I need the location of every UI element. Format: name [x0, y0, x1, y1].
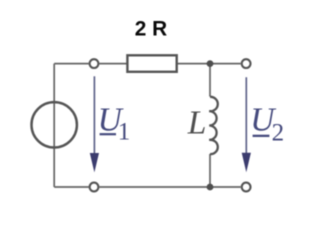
svg-text:2 R: 2 R	[135, 17, 167, 40]
svg-text:2: 2	[272, 120, 285, 147]
svg-text:L: L	[187, 105, 207, 142]
svg-text:1: 1	[118, 119, 131, 146]
